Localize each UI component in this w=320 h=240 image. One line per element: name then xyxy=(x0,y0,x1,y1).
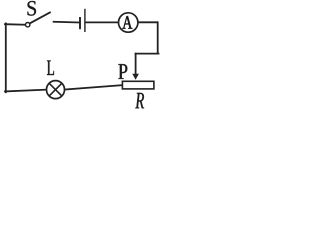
lamp L cross stroke 1 xyxy=(49,83,62,96)
slider P arrowhead xyxy=(132,74,139,80)
switch S pivot terminal xyxy=(26,23,30,27)
label L xyxy=(47,61,54,76)
wire battery to ammeter xyxy=(86,21,119,23)
wire top-left horizontal xyxy=(5,23,25,26)
lamp L cross stroke 2 xyxy=(49,83,62,96)
battery negative short plate xyxy=(79,17,81,29)
rheostat R body xyxy=(122,81,153,89)
label A xyxy=(122,16,132,28)
wire switch to battery xyxy=(54,21,79,24)
wire bottom-left (corner to lamp) xyxy=(5,90,46,92)
wire ammeter to top-right corner xyxy=(138,21,157,23)
ammeter A circle xyxy=(119,13,138,32)
wire bottom-right (lamp to rheostat) xyxy=(65,85,122,89)
wire jog horizontal xyxy=(136,53,159,55)
lamp L circle xyxy=(47,81,65,99)
label P xyxy=(118,64,127,79)
wire right vertical upper xyxy=(157,22,159,53)
switch S blade xyxy=(30,12,50,23)
wire left vertical xyxy=(5,23,7,92)
battery positive long plate xyxy=(84,9,86,32)
label S xyxy=(28,1,37,16)
label R xyxy=(135,93,144,108)
wire slider vertical xyxy=(135,54,137,75)
